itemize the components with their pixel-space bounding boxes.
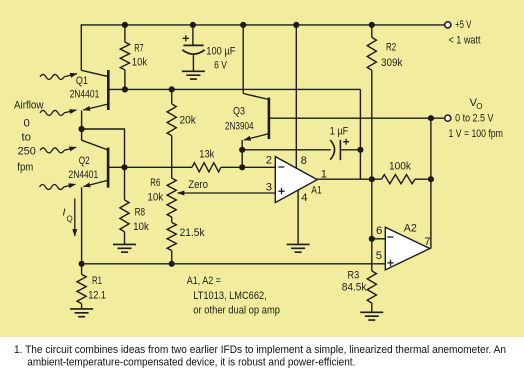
svg-text:R2: R2 bbox=[386, 41, 396, 53]
node Vo junction bbox=[428, 115, 434, 121]
transistor Q3 bar bbox=[268, 98, 271, 140]
arrow airflow 4 bbox=[40, 185, 64, 190]
svg-text:Airflow: Airflow bbox=[14, 99, 44, 111]
svg-text:8: 8 bbox=[301, 155, 307, 167]
resistor R7 bbox=[120, 42, 129, 70]
svg-text:20k: 20k bbox=[180, 115, 197, 127]
resistor 13k bbox=[192, 163, 221, 172]
terminal Vo bbox=[445, 115, 451, 121]
wire Q3 collector vertical bbox=[242, 25, 244, 94]
svg-text:A1: A1 bbox=[311, 185, 322, 197]
wire Q3 base line bbox=[269, 117, 444, 119]
node Q1 base / R7 bbox=[122, 86, 128, 92]
svg-text:< 1 watt: < 1 watt bbox=[449, 35, 482, 47]
node Q2 base bbox=[121, 164, 127, 170]
wire R3 bottom stub bbox=[371, 303, 373, 312]
wire Q1 collector vertical bbox=[80, 24, 82, 70]
resistor R3 bbox=[367, 271, 376, 303]
wire Q3 emitter vertical bbox=[241, 140, 243, 167]
svg-text:6 V: 6 V bbox=[214, 60, 227, 72]
wire Q2 emitter vertical bbox=[81, 187, 83, 264]
ground 100uF bbox=[182, 71, 205, 79]
node A2 pin6 bbox=[369, 236, 375, 242]
transistor Q2 collector diagonal bbox=[82, 140, 109, 150]
wire A1 pin8 vertical bbox=[295, 25, 297, 168]
wire pin6 to R3 vertical bbox=[371, 239, 373, 271]
transistor Q2 emitter bbox=[83, 180, 108, 186]
svg-text:2N3904: 2N3904 bbox=[225, 120, 254, 132]
node 1uF right bbox=[357, 147, 363, 153]
svg-text:to: to bbox=[22, 132, 32, 144]
svg-text:ambient-temperature-compensate: ambient-temperature-compensated device, … bbox=[27, 356, 355, 368]
wire 13k left stub bbox=[125, 166, 193, 168]
arrow IQ bbox=[74, 199, 76, 237]
svg-text:LT1013, LMC662,: LT1013, LMC662, bbox=[193, 290, 266, 302]
wire 1uF left wire bbox=[242, 149, 331, 151]
svg-text:fpm: fpm bbox=[17, 162, 33, 174]
svg-text:R7: R7 bbox=[134, 42, 144, 54]
wire feedback vertical bbox=[359, 89, 361, 179]
svg-text:0 to 2.5 V: 0 to 2.5 V bbox=[455, 113, 494, 125]
svg-text:3: 3 bbox=[266, 181, 272, 193]
wire +5V top rail bbox=[81, 24, 444, 26]
terminal +5V bbox=[445, 22, 451, 28]
svg-text:Q2: Q2 bbox=[79, 155, 90, 167]
resistor 20k bbox=[167, 104, 176, 136]
svg-text:Q1: Q1 bbox=[76, 75, 88, 87]
svg-text:A1, A2 =: A1, A2 = bbox=[187, 275, 221, 287]
wire R2 bottom vertical bbox=[371, 70, 373, 179]
svg-text:100k: 100k bbox=[389, 160, 411, 172]
svg-text:1. The circuit combines ideas: 1. The circuit combines ideas from two e… bbox=[14, 344, 506, 356]
potentiometer R6 bbox=[167, 178, 176, 217]
wire junction to Q2 base corner bbox=[82, 129, 125, 167]
svg-text:R3: R3 bbox=[348, 270, 360, 282]
wire 20k to R6 bbox=[171, 136, 173, 178]
wire A1 output bbox=[317, 178, 381, 180]
svg-text:I: I bbox=[63, 207, 66, 219]
svg-text:1 V = 100 fpm: 1 V = 100 fpm bbox=[449, 128, 503, 140]
svg-text:R8: R8 bbox=[135, 206, 146, 218]
resistor R1 bbox=[77, 274, 86, 303]
resistor R8 bbox=[120, 200, 129, 232]
svg-text:6: 6 bbox=[376, 225, 382, 237]
wire 13k right stub bbox=[221, 166, 275, 168]
wire R2 to pin6 vertical bbox=[371, 179, 373, 239]
svg-text:+5 V: +5 V bbox=[455, 19, 472, 31]
arrow airflow 1 bbox=[40, 74, 64, 79]
node 21.5k bottom bbox=[169, 261, 175, 267]
wire 21.5k bottom stub bbox=[171, 251, 173, 264]
node A1 pin8 rail bbox=[293, 22, 299, 28]
wire R8 top stub bbox=[124, 167, 126, 200]
wire Vo vertical bbox=[430, 118, 432, 248]
resistor 21.5k bbox=[167, 222, 176, 250]
op-amp A2 bbox=[385, 227, 430, 270]
arrow airflow 3 bbox=[40, 148, 64, 153]
svg-text:Q: Q bbox=[67, 215, 73, 224]
wire Q1 base stub bbox=[108, 88, 125, 90]
svg-text:1 µF: 1 µF bbox=[330, 125, 349, 137]
wire 100k right stub bbox=[415, 178, 431, 180]
svg-text:Zero: Zero bbox=[188, 179, 208, 191]
wire R1 top stub bbox=[81, 264, 83, 275]
wire 1uF right stub bbox=[340, 149, 360, 151]
node Q3 emitter / 1uF bbox=[239, 147, 245, 153]
wire R8 bottom stub bbox=[124, 232, 126, 245]
svg-text:0: 0 bbox=[24, 117, 30, 129]
wire R1 bottom stub bbox=[81, 304, 83, 309]
transistor Q1 collector diagonal bbox=[81, 70, 108, 76]
wire A1 pin3 wiper bbox=[178, 192, 276, 194]
svg-text:2: 2 bbox=[266, 154, 272, 166]
svg-text:2N4401: 2N4401 bbox=[69, 169, 99, 181]
svg-text:Q3: Q3 bbox=[233, 105, 245, 117]
wire Q2 base stub bbox=[108, 166, 124, 168]
svg-text:A2: A2 bbox=[404, 222, 417, 234]
wire bottom rail bbox=[82, 263, 386, 265]
op-amp A1 bbox=[275, 157, 317, 203]
node R7 top bbox=[122, 22, 128, 28]
wire A1 pin4 vertical bbox=[297, 190, 299, 244]
svg-text:O: O bbox=[476, 102, 482, 111]
transistor Q1 bar bbox=[107, 70, 110, 110]
ground A1 bbox=[287, 244, 310, 252]
node 100uF top bbox=[190, 22, 196, 28]
svg-text:13k: 13k bbox=[199, 149, 214, 161]
node Q1-Q2 junction bbox=[79, 126, 85, 132]
svg-text:4: 4 bbox=[301, 192, 307, 204]
wire R7 top stub bbox=[124, 25, 126, 42]
wire R2 top stub bbox=[371, 25, 373, 38]
wire 100uF top stub bbox=[192, 25, 194, 46]
node R2 top bbox=[369, 22, 375, 28]
svg-text:100 µF: 100 µF bbox=[206, 46, 235, 58]
node Q3 collector rail bbox=[240, 22, 246, 28]
svg-text:12.1: 12.1 bbox=[88, 290, 106, 302]
node bottom rail left / R1 bbox=[79, 261, 85, 267]
svg-text:7: 7 bbox=[424, 236, 430, 248]
transistor Q3 emitter bbox=[244, 134, 269, 140]
ground R1 bbox=[70, 309, 93, 317]
ground R3 bbox=[360, 312, 383, 320]
wire 100uF bottom stub bbox=[192, 54, 194, 72]
svg-text:10k: 10k bbox=[132, 57, 148, 69]
svg-text:84.5k: 84.5k bbox=[342, 282, 367, 294]
wire 20k top stub bbox=[171, 89, 173, 104]
svg-text:R1: R1 bbox=[92, 275, 102, 287]
label 1uF plus bbox=[343, 139, 349, 145]
transistor Q1 emitter bbox=[83, 104, 108, 110]
resistor 100k bbox=[382, 175, 415, 184]
svg-text:10k: 10k bbox=[133, 221, 149, 233]
arrow airflow 2 bbox=[40, 110, 64, 115]
resistor R2 bbox=[367, 37, 376, 70]
svg-text:5: 5 bbox=[376, 250, 382, 262]
svg-text:21.5k: 21.5k bbox=[180, 227, 205, 239]
wire R7 bottom stub bbox=[124, 70, 126, 90]
node A1 out / R2 / 100k bbox=[369, 176, 375, 182]
node 13k / Q3 emitter bbox=[239, 164, 245, 170]
node 20k top bbox=[169, 86, 175, 92]
svg-text:2N4401: 2N4401 bbox=[70, 89, 100, 101]
label 100uF plus bbox=[183, 35, 189, 41]
ground R8 bbox=[113, 244, 136, 252]
wire R6 to 21.5k bbox=[171, 217, 173, 222]
transistor Q3 collector diagonal bbox=[243, 94, 269, 100]
svg-text:or other dual op amp: or other dual op amp bbox=[193, 305, 280, 317]
svg-text:R6: R6 bbox=[150, 177, 160, 189]
wire Q1 base horizontal bbox=[125, 88, 361, 90]
transistor Q2 bar bbox=[107, 148, 110, 188]
svg-text:10k: 10k bbox=[147, 192, 163, 204]
svg-text:250: 250 bbox=[18, 146, 36, 158]
capacitor 100uF plates bbox=[182, 45, 204, 54]
wire Q1 emitter vertical bbox=[81, 110, 83, 140]
node 100k right bbox=[428, 176, 434, 182]
svg-text:309k: 309k bbox=[381, 57, 403, 69]
wire A2 pin6 stub bbox=[372, 238, 386, 240]
capacitor 1uF plates bbox=[330, 140, 340, 160]
